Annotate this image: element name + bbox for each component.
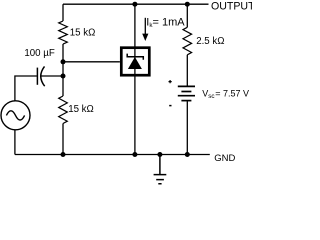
resistor R3 2.5 kOhm	[183, 27, 192, 55]
zener diode cathode bar	[127, 54, 143, 60]
wire zener branch vertical	[134, 4, 136, 154]
wire source bottom to rail	[14, 130, 16, 155]
wire source top to capacitor	[15, 76, 37, 101]
wire top rail (OUTPUT net)	[63, 3, 209, 5]
battery minus polarity marker	[169, 105, 171, 107]
battery plus polarity marker	[169, 80, 172, 83]
wire capacitor right to node	[41, 75, 63, 77]
battery B1 plate short bottom	[181, 100, 191, 102]
svg-text:2.5 kΩ: 2.5 kΩ	[196, 36, 224, 47]
capacitor C1 100 uF plate curved	[41, 66, 45, 86]
junction dot bottom rail / zener branch	[132, 152, 137, 157]
resistor R1 15 kOhm	[59, 21, 68, 44]
junction dot left branch / zener wire	[61, 59, 66, 64]
junction dot top rail / zener branch	[132, 2, 137, 7]
capacitor C1 100 uF plate straight	[36, 68, 38, 85]
svg-text:15 kΩ: 15 kΩ	[68, 104, 94, 115]
junction dot bottom rail / left branch	[61, 152, 66, 157]
svg-text:Vsc= 7.57 V: Vsc= 7.57 V	[202, 88, 249, 99]
wire node to zener box	[63, 61, 120, 63]
svg-text:100 µF: 100 µF	[24, 48, 54, 59]
junction dot bottom rail / ground	[157, 152, 162, 157]
wire left branch lower (R2 to bottom rail)	[62, 124, 64, 155]
junction dot top rail / right branch	[185, 2, 190, 7]
AC source V1 circle	[1, 101, 30, 130]
battery B1 plate short upper	[181, 91, 191, 93]
wire battery to bottom rail	[186, 101, 188, 154]
svg-text:Ik= 1mA: Ik= 1mA	[146, 17, 185, 30]
wire left branch upper (top rail to R1)	[62, 4, 64, 21]
wire bottom rail (GND net)	[15, 154, 210, 156]
svg-text:15 kΩ: 15 kΩ	[70, 28, 96, 39]
zener diode anode triangle	[128, 57, 142, 69]
wire 2.5k resistor to battery	[186, 55, 188, 86]
resistor R2 15 kOhm	[59, 96, 68, 124]
battery B1 plate long top	[178, 85, 195, 87]
AC source V1 sine wave	[6, 111, 24, 120]
battery B1 plate long lower	[178, 95, 195, 97]
wire right branch (rail to 2.5k resistor)	[186, 4, 188, 27]
junction dot left branch / capacitor wire	[61, 74, 66, 79]
junction dot bottom rail / right branch	[185, 152, 190, 157]
current arrow Ik head	[142, 34, 148, 41]
current arrow Ik shaft	[144, 18, 146, 35]
ground symbol	[154, 155, 167, 184]
svg-text:OUTPUT: OUTPUT	[211, 1, 252, 13]
svg-text:GND: GND	[214, 153, 235, 164]
wire left branch middle (R1 to R2 through nodes)	[62, 44, 64, 96]
zener diode box U1	[121, 48, 149, 75]
